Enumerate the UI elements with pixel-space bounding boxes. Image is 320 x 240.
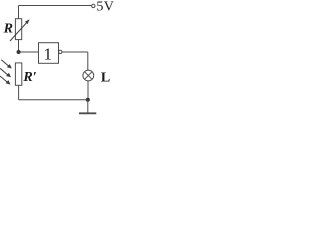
- svg-text:1: 1: [44, 44, 52, 63]
- light arrow 1: [1, 60, 12, 69]
- node junction bottom: [86, 98, 90, 102]
- resistor R' (photoresistor): [15, 63, 21, 85]
- op-amp gate box 1 (NOT gate): [39, 43, 59, 64]
- svg-text:5V: 5V: [96, 0, 113, 15]
- resistor R: [15, 19, 21, 40]
- node junction left: [17, 50, 21, 54]
- lamp L: [83, 70, 94, 81]
- wire bottom rail: [19, 99, 88, 101]
- svg-text:L: L: [101, 71, 110, 86]
- wire node to ground: [87, 100, 89, 113]
- light arrow 2: [0, 68, 11, 77]
- wire top rail: [19, 5, 92, 7]
- wire node to gate input: [19, 51, 39, 53]
- wire down to lamp: [87, 52, 89, 70]
- background: [0, 0, 116, 118]
- light arrow 3: [0, 76, 11, 85]
- svg-text:R: R: [3, 22, 13, 37]
- inverter bubble: [59, 50, 62, 53]
- wire R' to bottom rail: [18, 85, 20, 100]
- wire left top: [18, 6, 20, 19]
- svg-text:R′: R′: [22, 70, 36, 85]
- terminal 5V: [92, 4, 95, 7]
- arrow of variable resistor R: [10, 19, 30, 41]
- wire R to node: [18, 40, 20, 52]
- wire lamp to bottom node: [87, 81, 89, 100]
- wire gate output: [62, 51, 88, 53]
- ground: [79, 112, 96, 114]
